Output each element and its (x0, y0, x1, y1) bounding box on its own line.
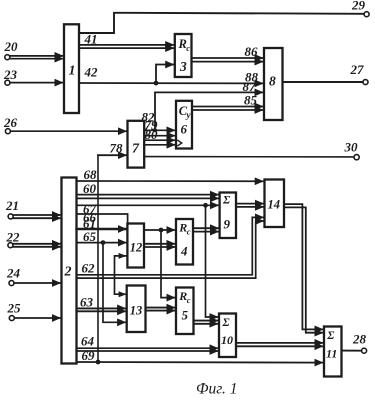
svg-text:с: с (186, 43, 190, 53)
svg-text:28: 28 (352, 332, 367, 347)
output terminal 29 (351, 0, 369, 17)
wire 86 double from block 3 to block 8 (192, 44, 264, 62)
input terminal 24 (6, 266, 21, 286)
block 3 Rc register (175, 34, 192, 77)
caption Fig 1 (196, 381, 238, 398)
junction dot on wire 65 (101, 240, 106, 245)
svg-text:60: 60 (83, 181, 97, 196)
block 6 Cy counter (176, 101, 192, 149)
wire branch from block 12 output down to block 5 (161, 230, 175, 298)
wire connector into block 12 and block 13 (115, 253, 128, 297)
wire 28 from block 11 to terminal 28 (342, 350, 362, 352)
input terminal 25 (7, 301, 22, 321)
svg-text:9: 9 (224, 217, 231, 232)
svg-text:Фиг. 1: Фиг. 1 (196, 381, 238, 398)
wire 79 from block 7 to block 6 (144, 118, 175, 136)
svg-text:3: 3 (179, 59, 187, 74)
svg-text:25: 25 (7, 301, 22, 316)
svg-text:8: 8 (269, 74, 276, 89)
wire 67 from block 2 to block 9 (77, 201, 219, 216)
wire double from block 12 to block 4 (144, 244, 175, 247)
wire 85 double from block 6 to block 8 (192, 93, 263, 111)
svg-text:12: 12 (130, 241, 143, 255)
junction dot on wire 42 (154, 81, 159, 86)
junction dot on block 12 output (159, 228, 164, 233)
wire double from block 9 to block 14 (236, 204, 264, 207)
svg-text:29: 29 (351, 0, 366, 13)
svg-text:68: 68 (84, 167, 98, 182)
svg-text:13: 13 (130, 304, 143, 318)
block 11 summator (324, 327, 342, 377)
block 13 (127, 286, 146, 333)
svg-text:2: 2 (64, 265, 72, 280)
svg-text:с: с (187, 227, 191, 237)
wire 24 into block 2 (14, 282, 60, 284)
wire 29 from block 1 to terminal 29 (79, 13, 364, 33)
block 12 (127, 224, 144, 268)
wire 61 from block 2 to block 12 (77, 216, 127, 231)
wire 23 into block 1 (10, 82, 63, 84)
wire 30 from block 7 to terminal 30 (144, 156, 354, 158)
input terminal 22 (6, 229, 21, 247)
svg-text:Σ: Σ (222, 317, 230, 329)
wire double from block 13 to block 5 (146, 308, 176, 311)
svg-text:27: 27 (350, 62, 365, 77)
wire 62 double from block 2 to block 14 (77, 217, 264, 278)
svg-text:86: 86 (245, 44, 259, 59)
svg-text:24: 24 (6, 266, 21, 281)
svg-text:80: 80 (145, 127, 159, 142)
wire 67 branch down to block 10 (206, 205, 219, 317)
svg-text:26: 26 (3, 115, 18, 130)
wire 65 from block 2 to block 12 (77, 229, 127, 244)
block 4 Rc register (176, 219, 193, 265)
wire 87 from block 7 output up to block 8 (155, 79, 263, 130)
svg-text:22: 22 (6, 229, 21, 244)
svg-text:Σ: Σ (326, 330, 334, 342)
svg-text:5: 5 (182, 308, 189, 323)
block 8 (264, 48, 283, 120)
input terminal 20 (4, 39, 19, 60)
svg-text:62: 62 (82, 261, 96, 276)
wire from block 12 to block 4 (144, 229, 175, 231)
wire 41 double from block 1 to block 3 (79, 32, 174, 49)
svg-text:42: 42 (84, 65, 99, 80)
svg-text:41: 41 (84, 32, 98, 47)
svg-text:63: 63 (80, 295, 94, 310)
wire 27 from block 8 to terminal 27 (283, 81, 363, 83)
junction dot on wire 67 (203, 203, 208, 208)
block 9 summator (220, 193, 236, 239)
wire 64 double from block 2 to block 10 (77, 333, 219, 351)
wire 68 from block 2 to block 14 (77, 167, 264, 182)
svg-text:65: 65 (83, 229, 97, 244)
svg-text:78: 78 (110, 140, 124, 155)
wire branch from 42 into block 3 (156, 65, 174, 84)
svg-text:4: 4 (180, 244, 188, 259)
block 1 (64, 24, 79, 113)
output terminal 27 (350, 62, 369, 85)
svg-text:30: 30 (344, 140, 359, 155)
wire 26 into block 7 (11, 130, 127, 132)
wire 69 from block 2 to block 11 (77, 348, 324, 363)
output terminal 30 (344, 140, 360, 160)
svg-text:10: 10 (221, 333, 233, 347)
svg-text:14: 14 (268, 198, 281, 212)
svg-text:69: 69 (82, 348, 96, 363)
svg-text:11: 11 (326, 347, 337, 361)
svg-text:85: 85 (244, 93, 258, 108)
wire 63 double from block 2 to block 13 (77, 295, 126, 312)
svg-text:23: 23 (3, 67, 18, 82)
block 10 summator (219, 314, 236, 358)
wire 22 double into block 2 (13, 244, 60, 247)
wire double from block 4 to block 9 (193, 228, 219, 231)
junction dot wire 87 on line 82 (153, 128, 157, 132)
junction dot on line 69 (96, 360, 101, 365)
svg-text:1: 1 (69, 64, 76, 79)
svg-text:6: 6 (181, 122, 188, 137)
wire from block 7 to block 6 clock (144, 144, 175, 146)
wire 60 double from block 2 to block 9 (77, 181, 219, 198)
output terminal 28 (352, 332, 367, 354)
wire 42 from block 1 to block 8 input 88 (79, 65, 263, 85)
wire double from block 14 down to block 11 (284, 204, 323, 333)
svg-text:64: 64 (81, 333, 95, 348)
wire 78 into block 7 (98, 140, 127, 155)
block 7 (128, 121, 145, 168)
wire double from block 10 to block 11 (236, 343, 323, 346)
block 5 Rc register (176, 288, 194, 335)
input terminal 26 (3, 115, 18, 134)
input terminal 21 (5, 198, 19, 219)
svg-text:с: с (187, 295, 191, 305)
wire 80 from block 7 to block 6 (144, 127, 175, 142)
wire 66 from block 2 into top of block 12 (77, 210, 128, 225)
wire 21 double into block 2 (13, 215, 60, 218)
svg-text:21: 21 (5, 198, 19, 213)
wire 25 into block 2 (15, 317, 61, 319)
vertical wire 78 branch down to line 69 (97, 155, 99, 362)
wire double from block 5 to block 10 (194, 321, 219, 324)
svg-text:Σ: Σ (222, 195, 230, 207)
wire 20 double into block 1 (10, 56, 63, 59)
block 2 (62, 178, 77, 364)
svg-text:7: 7 (132, 142, 140, 157)
input terminal 23 (3, 67, 18, 85)
svg-text:20: 20 (4, 39, 19, 54)
wire 65 branch down to block 13 (103, 243, 126, 323)
block 14 (265, 180, 285, 228)
wire 82 from block 7 to block 6 (142, 110, 176, 131)
